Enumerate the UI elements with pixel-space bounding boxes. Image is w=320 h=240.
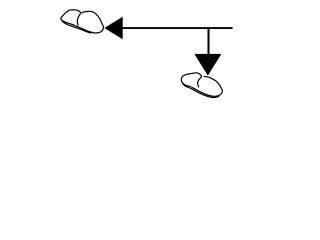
arrowhead pointing down at node B [195, 54, 221, 75]
wire (horizontal segment) [122, 27, 233, 29]
arrowhead pointing left at node A [105, 17, 123, 39]
node B (bottom rough ellipse) [181, 73, 222, 98]
node A (top-left rough ellipse) [61, 10, 104, 33]
wire (vertical segment) [208, 27, 210, 54]
